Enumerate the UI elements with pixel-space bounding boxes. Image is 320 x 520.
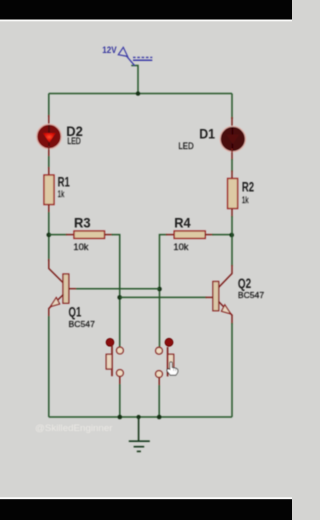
LED D1 bottom pin [231,149,233,161]
resistor R2 [228,179,238,209]
wire power drop vertical [131,66,138,94]
SW2 red state dot [165,338,173,346]
resistor R4 left pin [166,234,175,236]
wire Q1 base to R4 column [76,288,160,290]
wire D2 to R1 [48,156,50,168]
wire R1 to collector node [48,212,50,261]
resistor R4 right pin [205,234,213,236]
node junction R4 column / Q1 base line [157,287,162,292]
LED D1 (off) [220,126,245,151]
push button SW1 (left) [106,338,123,385]
transistor Q2 [206,265,233,324]
SW1 top terminal [117,347,124,354]
resistor R3 right pin [105,234,113,236]
resistor R4 [174,231,205,238]
SW2 bottom terminal [156,371,163,378]
svg-text:10k: 10k [73,242,89,252]
wire D1 to R2 [231,159,233,172]
node junction R3 column / Q2 base line [117,295,122,300]
wire R3 left [49,234,67,236]
svg-text:R1: R1 [58,174,70,189]
top letterbox black bar [0,0,292,20]
wire SW2 to ground rail [158,385,160,417]
resistor R3 [74,231,105,238]
LED D2 bottom pin [48,146,50,157]
svg-text:BC547: BC547 [238,290,264,300]
wire right rail top segment [231,94,233,120]
power terminal 12V symbol [118,47,152,65]
SW1 bottom pin [119,377,121,386]
wire Q2 base line from R3 column [120,296,207,298]
svg-text:R3: R3 [74,216,91,231]
node junction at power drop [136,91,140,95]
bottom letterbox black bar [0,499,292,520]
Q1 base bar [63,274,69,303]
push button SW2 (right) [156,338,174,386]
bottom ground rail wire [49,416,232,418]
LED D2 (lit) [37,124,62,149]
transistor Q1 [49,259,77,317]
SW1 body [106,354,112,369]
SW2 top terminal [156,347,163,354]
SW2 body [168,354,174,369]
svg-text:10k: 10k [173,242,189,252]
svg-text:LED: LED [178,141,193,151]
wire right rail bottom segment [231,323,233,417]
svg-text:12V: 12V [102,45,116,55]
Q2 base bar [213,282,219,311]
SW2 bottom pin [158,378,160,387]
SW1 plunger bar [111,345,113,376]
svg-text:BC547: BC547 [69,319,96,329]
resistor R2 bottom pin [231,209,233,218]
svg-text:LED: LED [67,136,80,146]
node junction SW1 / ground rail [118,415,123,420]
wire R2 to collector node [231,216,233,266]
SW2 plunger bar [167,347,169,376]
SW1 bottom terminal [117,370,124,377]
wire R4 left to button column [160,235,168,347]
Q2 collector lead [231,265,233,274]
svg-text:Q1: Q1 [69,305,82,320]
Q1 emitter lead with arrow [49,295,64,309]
svg-text:Q2: Q2 [238,276,252,291]
svg-text:R2: R2 [242,179,254,194]
resistor R1 [44,175,54,205]
Q1 collector lead [48,259,50,269]
mouse hand cursor [167,362,178,375]
ground symbol [129,417,150,451]
SW1 red state dot [106,338,114,346]
wire R4 right to right rail [212,234,232,236]
resistor R1 top pin [48,167,50,176]
bottom white separator line [0,497,292,499]
svg-text:R4: R4 [174,216,191,231]
svg-text:1k: 1k [58,189,65,199]
wire left rail top segment [48,94,50,118]
Q2 emitter lead with arrow [219,302,233,316]
wire left rail bottom segment [48,316,50,417]
svg-text:@SkilledEnginner: @SkilledEnginner [35,423,113,434]
LED D1 top pin [231,117,233,130]
Q2 base pin [206,296,214,298]
top horizontal supply wire [49,93,232,95]
node junction left rail / R3 [47,233,52,238]
wire SW1 to ground rail [119,384,121,417]
top white separator line [0,20,292,22]
LED D2 top pin [48,115,50,128]
node junction ground tap [137,415,141,419]
resistor R2 top pin [231,171,233,180]
resistor R3 left pin [66,234,75,236]
node junction SW2 / ground rail [157,415,162,420]
resistor R1 bottom pin [48,205,50,214]
svg-text:D1: D1 [199,127,215,143]
svg-text:1k: 1k [242,195,249,205]
wire R3 right to button column [112,235,120,347]
Q1 base pin [69,288,77,290]
node junction right rail / R4 [229,233,234,238]
